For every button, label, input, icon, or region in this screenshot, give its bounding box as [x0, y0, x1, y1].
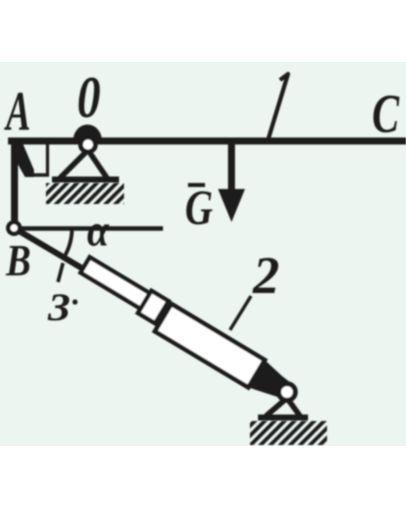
corner gusset chamfer weld — [11, 144, 34, 177]
beam AC (horizontal lever bar) — [8, 138, 406, 145]
svg-text:0: 0 — [77, 64, 101, 130]
arm AB (vertical bar of bell crank) — [11, 138, 18, 223]
pivot lug above beam at O — [73, 125, 102, 141]
scan background band — [0, 62, 406, 446]
dot after label 3 — [72, 299, 77, 304]
piston rod line from B — [19, 231, 97, 277]
leader tick of label 3 — [58, 263, 63, 282]
svg-text:α: α — [87, 206, 109, 256]
ground hatching at lower support — [250, 421, 327, 445]
cylinder end taper to pin — [248, 360, 294, 399]
cylinder 2 body — [155, 304, 265, 388]
pin O (circle with hole) — [81, 137, 96, 152]
ground base line at lower support — [258, 415, 308, 421]
support triangle at lower pin — [266, 398, 300, 416]
svg-text:2: 2 — [252, 247, 280, 305]
pin at cylinder base (circle with hole) — [279, 384, 296, 401]
leader line of label 2 — [230, 296, 251, 330]
label 1 with leader stroke — [268, 74, 288, 140]
weight force arrow G shaft — [228, 144, 235, 212]
angle alpha arc — [64, 228, 72, 258]
pin B (circle with hole) — [8, 222, 20, 234]
cylinder gland collar — [138, 291, 169, 324]
horizontal reference line from B (for angle) — [20, 226, 163, 231]
ground base line at O — [52, 177, 119, 183]
svg-text:B: B — [5, 236, 31, 284]
svg-text:C: C — [372, 84, 400, 144]
svg-text:G: G — [185, 179, 213, 235]
piston rod body (narrow rectangle) — [81, 257, 150, 309]
support triangle at O — [60, 150, 107, 178]
gusset bottom edge — [28, 173, 49, 176]
svg-text:A: A — [4, 82, 31, 143]
svg-text:3: 3 — [47, 287, 70, 330]
gusset vertical edge — [46, 144, 49, 177]
ground hatching at O — [46, 183, 124, 204]
overbar of G — [188, 183, 205, 187]
weight force arrowhead — [218, 189, 245, 222]
